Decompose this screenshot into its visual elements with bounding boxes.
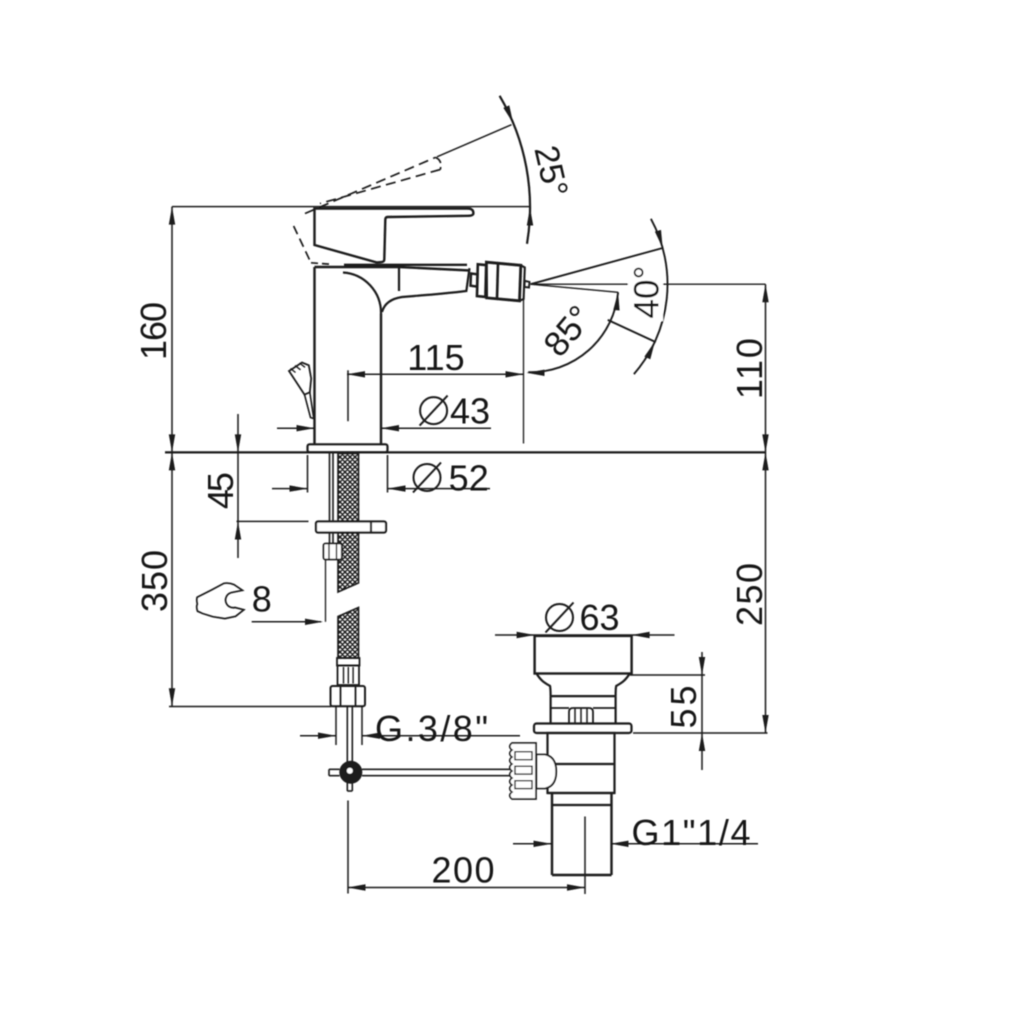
svg-text:G1"1/4: G1"1/4	[632, 812, 751, 853]
svg-text:8: 8	[252, 578, 272, 619]
svg-text:45: 45	[200, 472, 241, 509]
svg-text:110: 110	[729, 338, 770, 399]
svg-text:200: 200	[432, 849, 495, 890]
svg-text:63: 63	[579, 597, 619, 638]
svg-text:40°: 40°	[628, 266, 667, 319]
svg-text:G.3/8": G.3/8"	[375, 708, 488, 749]
svg-text:160: 160	[133, 302, 174, 360]
svg-text:43: 43	[450, 390, 490, 431]
svg-text:250: 250	[729, 563, 770, 626]
svg-text:52: 52	[449, 457, 489, 498]
svg-text:115: 115	[407, 337, 464, 378]
svg-text:350: 350	[134, 550, 175, 612]
